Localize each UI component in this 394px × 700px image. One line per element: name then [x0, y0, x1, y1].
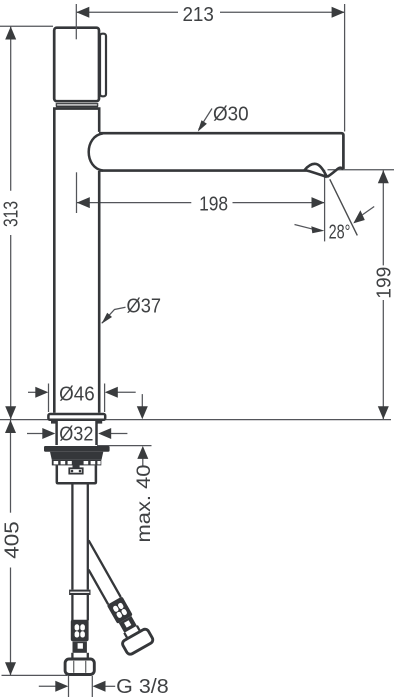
spout aerator tip	[305, 164, 328, 177]
svg-text:Ø37: Ø37	[127, 296, 162, 318]
dimension diameter 32	[27, 433, 127, 435]
svg-text:213: 213	[182, 4, 214, 26]
dimension max 40	[97, 394, 152, 465]
svg-text:198: 198	[199, 193, 228, 215]
svg-text:max. 40: max. 40	[134, 465, 155, 543]
svg-text:199: 199	[373, 267, 394, 299]
ring below handle	[56, 104, 97, 107]
svg-text:G 3/8: G 3/8	[116, 676, 169, 698]
angled hose crimp braid	[107, 596, 133, 624]
svg-text:313: 313	[1, 201, 23, 227]
base flange	[48, 414, 105, 420]
hose end nut G3/8	[65, 659, 94, 675]
mounting nut box	[57, 465, 96, 483]
cone gasket	[50, 452, 103, 460]
hose collar fitting	[69, 590, 90, 595]
hose crimp braid	[71, 620, 89, 642]
threaded section	[52, 460, 102, 466]
angled hose ferrule	[119, 616, 137, 633]
angled hose end nut	[121, 628, 154, 656]
deck line	[0, 419, 391, 421]
svg-text:Ø46: Ø46	[59, 383, 95, 405]
dimension diameter 46	[28, 384, 136, 413]
shank below deck	[57, 421, 97, 445]
dimension 213	[76, 4, 344, 132]
svg-text:28°: 28°	[329, 222, 351, 244]
svg-text:Ø30: Ø30	[213, 103, 249, 125]
column body	[54, 109, 99, 413]
straight hose tube	[72, 485, 87, 621]
svg-text:405: 405	[1, 521, 23, 559]
dimension angle 28deg	[330, 179, 358, 235]
centre extension line into handle	[75, 4, 77, 39]
dimension 313	[0, 26, 53, 419]
handle lever pin	[100, 34, 106, 97]
dimension G 3/8	[39, 676, 115, 697]
label diameter 37	[102, 307, 126, 323]
svg-text:Ø32: Ø32	[59, 424, 93, 446]
dimension 198	[77, 170, 325, 242]
dimension 405	[2, 420, 68, 675]
label diameter 30	[199, 109, 212, 130]
angled hose	[70, 537, 155, 656]
hose end ferrule	[73, 642, 87, 653]
handle body	[54, 28, 99, 102]
flange seal nubs	[51, 421, 57, 424]
dimension 199	[328, 170, 394, 419]
spout tube	[89, 133, 103, 170]
rubber washer	[44, 446, 110, 452]
set screw tab	[73, 460, 80, 468]
